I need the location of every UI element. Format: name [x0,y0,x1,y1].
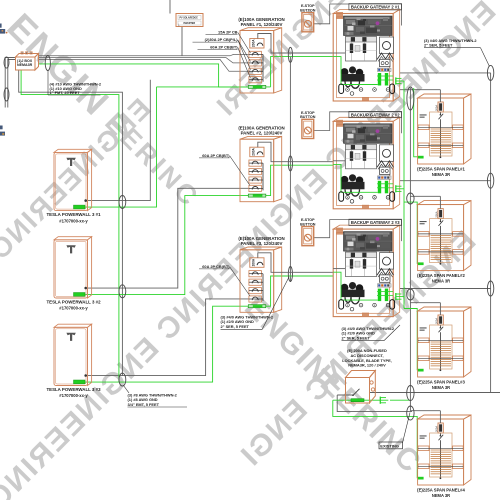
svg-text:TESLA POWERWALL 3 #2: TESLA POWERWALL 3 #2 [46,299,101,304]
svg-text:NEMA 3R: NEMA 3R [432,385,450,390]
svg-text:TESLA POWERWALL 3 #1: TESLA POWERWALL 3 #1 [46,212,101,217]
svg-text:PANEL #2, 120/240V: PANEL #2, 120/240V [241,131,283,136]
svg-text:NEMA 3R: NEMA 3R [432,172,450,177]
svg-text:EXISTING: EXISTING [380,443,399,448]
svg-text:PV SOLAREDGE: PV SOLAREDGE [180,17,199,20]
svg-text:15A 2P CB: 15A 2P CB [218,30,238,35]
svg-text:(E)225A SPAN PANEL#4: (E)225A SPAN PANEL#4 [417,488,465,493]
svg-text:1" FMT, 25 FEET: 1" FMT, 25 FEET [50,90,81,95]
svg-text:#1707000-xx-y: #1707000-xx-y [59,306,88,311]
svg-text:#1707000-xx-y: #1707000-xx-y [59,393,88,398]
svg-text:NEMA3R: NEMA3R [17,63,33,67]
svg-text:2" SER, 5 FEET: 2" SER, 5 FEET [342,335,371,340]
svg-text:2" SER, 5 FEET: 2" SER, 5 FEET [424,43,453,48]
svg-text:#1707000-xx-y: #1707000-xx-y [59,218,88,223]
svg-text:BACKUP GATEWAY 2 #3: BACKUP GATEWAY 2 #3 [351,220,400,225]
svg-text:⏚: ⏚ [178,23,181,27]
svg-text:NEMA 3R: NEMA 3R [432,279,450,284]
svg-text:BACKUP GATEWAY 2 #1: BACKUP GATEWAY 2 #1 [351,5,400,10]
svg-text:(E)225A SPAN PANEL#3: (E)225A SPAN PANEL#3 [417,380,465,385]
svg-text:60A 2P CB(BT): 60A 2P CB(BT) [202,264,230,269]
svg-text:60A 2P CB(BT): 60A 2P CB(BT) [202,153,230,158]
svg-text:BUTTON: BUTTON [300,115,316,119]
svg-text:TESLA POWERWALL 3 #3: TESLA POWERWALL 3 #3 [46,387,101,392]
svg-text:NEMA3R, 120 / 240V: NEMA3R, 120 / 240V [348,363,386,368]
svg-text:PANEL #3, 120/240V: PANEL #3, 120/240V [241,241,283,246]
svg-text:60A 2P CB(BT): 60A 2P CB(BT) [210,44,238,49]
svg-text:3/4" EMT, 5 FEET: 3/4" EMT, 5 FEET [128,402,160,407]
svg-text:2" SER, 5 FEET: 2" SER, 5 FEET [221,324,250,329]
svg-text:(2)30A 2P CB(P/L): (2)30A 2P CB(P/L) [205,37,239,42]
svg-text:NEMA 3R: NEMA 3R [432,493,450,498]
svg-text:BUTTON: BUTTON [300,222,316,226]
svg-text:(E)225A SPAN PANEL#1: (E)225A SPAN PANEL#1 [417,167,465,172]
svg-text:(E)225A SPAN PANEL#2: (E)225A SPAN PANEL#2 [417,273,465,278]
svg-text:PANEL #1, 120/240V: PANEL #1, 120/240V [241,22,283,27]
svg-text:BUTTON: BUTTON [300,8,316,12]
svg-text:BACKUP GATEWAY 2 #2: BACKUP GATEWAY 2 #2 [351,112,400,117]
svg-text:INVERTER: INVERTER [184,23,196,25]
